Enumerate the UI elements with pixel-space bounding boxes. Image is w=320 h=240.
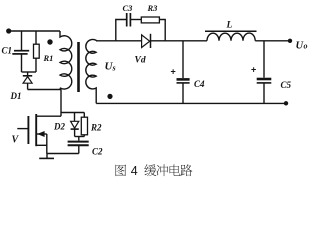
transformer secondary winding — [86, 39, 96, 103]
wire clamp bottom join — [22, 71, 37, 73]
capacitor C5 — [263, 41, 265, 78]
wire bottom rail — [96, 102, 286, 104]
svg-text:C5: C5 — [281, 80, 292, 90]
wire snubber up left — [116, 20, 127, 41]
svg-text:+: + — [171, 67, 176, 77]
svg-text:Vd: Vd — [135, 55, 146, 65]
svg-text:D2: D2 — [53, 122, 65, 132]
wire D1 to drain node — [28, 89, 61, 91]
node primary phase dot — [47, 39, 52, 44]
wire C3 to R3 — [131, 19, 142, 21]
node secondary phase dot — [107, 94, 112, 99]
wire secondary top rail — [96, 40, 142, 42]
diode D2 — [74, 113, 76, 122]
diode Vd — [142, 35, 150, 48]
transistor V source vertical — [46, 134, 48, 154]
diode D1 — [27, 72, 29, 76]
svg-text:R3: R3 — [147, 3, 159, 13]
svg-text:R2: R2 — [90, 123, 102, 133]
wire C1 bottom lead — [21, 55, 23, 73]
svg-text:R1: R1 — [43, 53, 54, 63]
resistor R1 — [35, 31, 37, 44]
wire L to output — [255, 40, 290, 42]
svg-text:4: 4 — [131, 164, 138, 178]
transistor V body arrow stub — [37, 133, 47, 135]
node input terminal dot — [6, 28, 11, 33]
node bottom-right dot — [284, 101, 288, 105]
transistor V lower stub — [46, 154, 48, 159]
wire top-left input rail — [9, 30, 60, 32]
wire D2 R2 join — [75, 136, 85, 138]
wire drain node vertical — [60, 90, 62, 117]
wire source to C2 — [47, 153, 79, 155]
transistor V arrow head — [37, 131, 44, 137]
capacitor C3 — [126, 13, 128, 27]
transformer core — [77, 42, 80, 92]
wire C1 branch top lead — [21, 31, 23, 50]
svg-text:C3: C3 — [123, 3, 134, 13]
resistor R2 — [83, 113, 85, 118]
transistor Q V: gate lead — [17, 128, 27, 130]
svg-text:L: L — [226, 20, 233, 30]
wire R3 down to rail — [159, 20, 165, 41]
svg-text:s: s — [112, 64, 116, 73]
wire Vd to L — [151, 40, 208, 42]
capacitor C4 — [182, 41, 184, 78]
wire drain tee to snubber2 — [61, 112, 84, 114]
transistor V bottom bar — [39, 157, 54, 159]
resistor R3 — [141, 17, 159, 23]
wire join to C2 — [78, 137, 80, 141]
node Uo output dot — [288, 39, 292, 43]
svg-text:D1: D1 — [10, 91, 22, 101]
capacitor C2 — [68, 141, 89, 143]
svg-text:+: + — [251, 65, 256, 75]
svg-text:C4: C4 — [194, 79, 205, 89]
transistor V channel bar — [35, 114, 37, 146]
transformer primary winding — [60, 31, 72, 90]
inductor L — [205, 30, 257, 32]
svg-text:C1: C1 — [2, 46, 13, 56]
caption figure text — [115, 164, 192, 178]
capacitor C1 — [14, 50, 29, 52]
transistor V gate bar — [27, 116, 29, 144]
svg-text:C2: C2 — [92, 147, 103, 157]
svg-text:o: o — [304, 42, 308, 51]
transistor V source stub — [37, 144, 47, 146]
transistor V drain stub — [37, 115, 61, 117]
